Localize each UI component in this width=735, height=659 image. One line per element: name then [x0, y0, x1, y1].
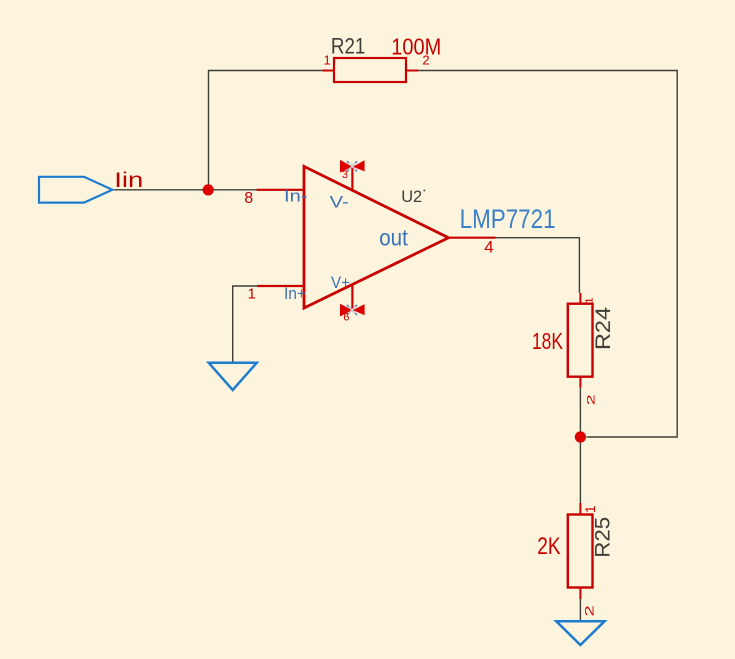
- svg-text:4: 4: [484, 238, 493, 257]
- svg-text:U2: U2: [401, 187, 422, 206]
- svg-text:1: 1: [583, 505, 598, 513]
- no-connect flag (bowtie) at pin 3: [340, 160, 365, 173]
- resistor R24 pin 2 stub: [579, 377, 581, 388]
- svg-text:1: 1: [324, 53, 331, 68]
- resistor R21 pin 1 stub: [322, 70, 334, 72]
- svg-text:3: 3: [342, 169, 348, 181]
- svg-text:6: 6: [343, 312, 349, 324]
- svg-text:R21: R21: [331, 34, 366, 59]
- resistor R21 pin 2 stub: [406, 70, 418, 72]
- resistor R24 body: [568, 304, 593, 377]
- op-amp pin 3 (V-) lead: [351, 167, 353, 191]
- svg-text:1: 1: [248, 286, 256, 303]
- svg-text:V+: V+: [331, 273, 350, 292]
- svg-text:1: 1: [583, 297, 595, 304]
- op-amp pin 4 (out) lead: [449, 237, 496, 239]
- op-amp pin 6 (V+) lead: [351, 286, 353, 311]
- resistor R25 pin 2 stub: [579, 588, 581, 600]
- svg-text:In+: In+: [284, 284, 306, 303]
- op-amp pin 8 (In-) lead: [257, 189, 305, 191]
- ground 2 (below R25): [556, 621, 604, 645]
- wire: In+ pin to ground 1: [233, 286, 257, 363]
- port Iin (input flag): [39, 177, 112, 203]
- resistor R25 pin 1 stub: [579, 503, 581, 515]
- junction node B (R24 / R25 / feedback): [575, 431, 586, 442]
- svg-text:100M: 100M: [391, 34, 441, 60]
- svg-text:out: out: [379, 225, 408, 251]
- wire: R24 bottom to node B to R25 top: [579, 388, 581, 503]
- resistor R25 body: [568, 515, 593, 588]
- resistor R24 pin 1 stub: [579, 293, 581, 304]
- svg-text:2K: 2K: [537, 533, 560, 560]
- wire: R25 bottom to ground: [579, 599, 581, 621]
- svg-text:18K: 18K: [532, 328, 563, 354]
- wire: op-amp output to R24 top: [496, 238, 580, 293]
- junction node A (Iin / feedback): [203, 184, 214, 195]
- wire: R21 pin2 to right riser and down to node B: [418, 71, 677, 438]
- svg-text:2: 2: [422, 53, 429, 68]
- svg-text:8: 8: [244, 190, 253, 207]
- svg-text:LMP7721: LMP7721: [460, 204, 556, 234]
- op-amp U2 triangle: [304, 166, 449, 308]
- svg-text:2: 2: [586, 394, 598, 405]
- no-connect X at pin 3: [347, 161, 357, 171]
- tick after U2: [424, 190, 426, 192]
- wire: feedback top from left riser to R21 pin1: [209, 71, 323, 190]
- svg-text:R24: R24: [591, 307, 615, 350]
- svg-text:V-: V-: [330, 192, 349, 211]
- svg-text:R25: R25: [590, 517, 614, 558]
- ground 1 (below In+): [209, 363, 257, 390]
- resistor R21 body: [334, 58, 406, 82]
- op-amp pin 1 (In+) lead: [257, 285, 304, 287]
- svg-text:2: 2: [583, 605, 597, 616]
- svg-text:In-: In-: [284, 187, 308, 206]
- wire: port Iin to op-amp In- pin: [112, 189, 256, 191]
- no-connect flag (bowtie) at pin 6: [340, 304, 365, 317]
- no-connect X at pin 6: [347, 305, 357, 315]
- svg-text:Iin: Iin: [114, 169, 143, 192]
